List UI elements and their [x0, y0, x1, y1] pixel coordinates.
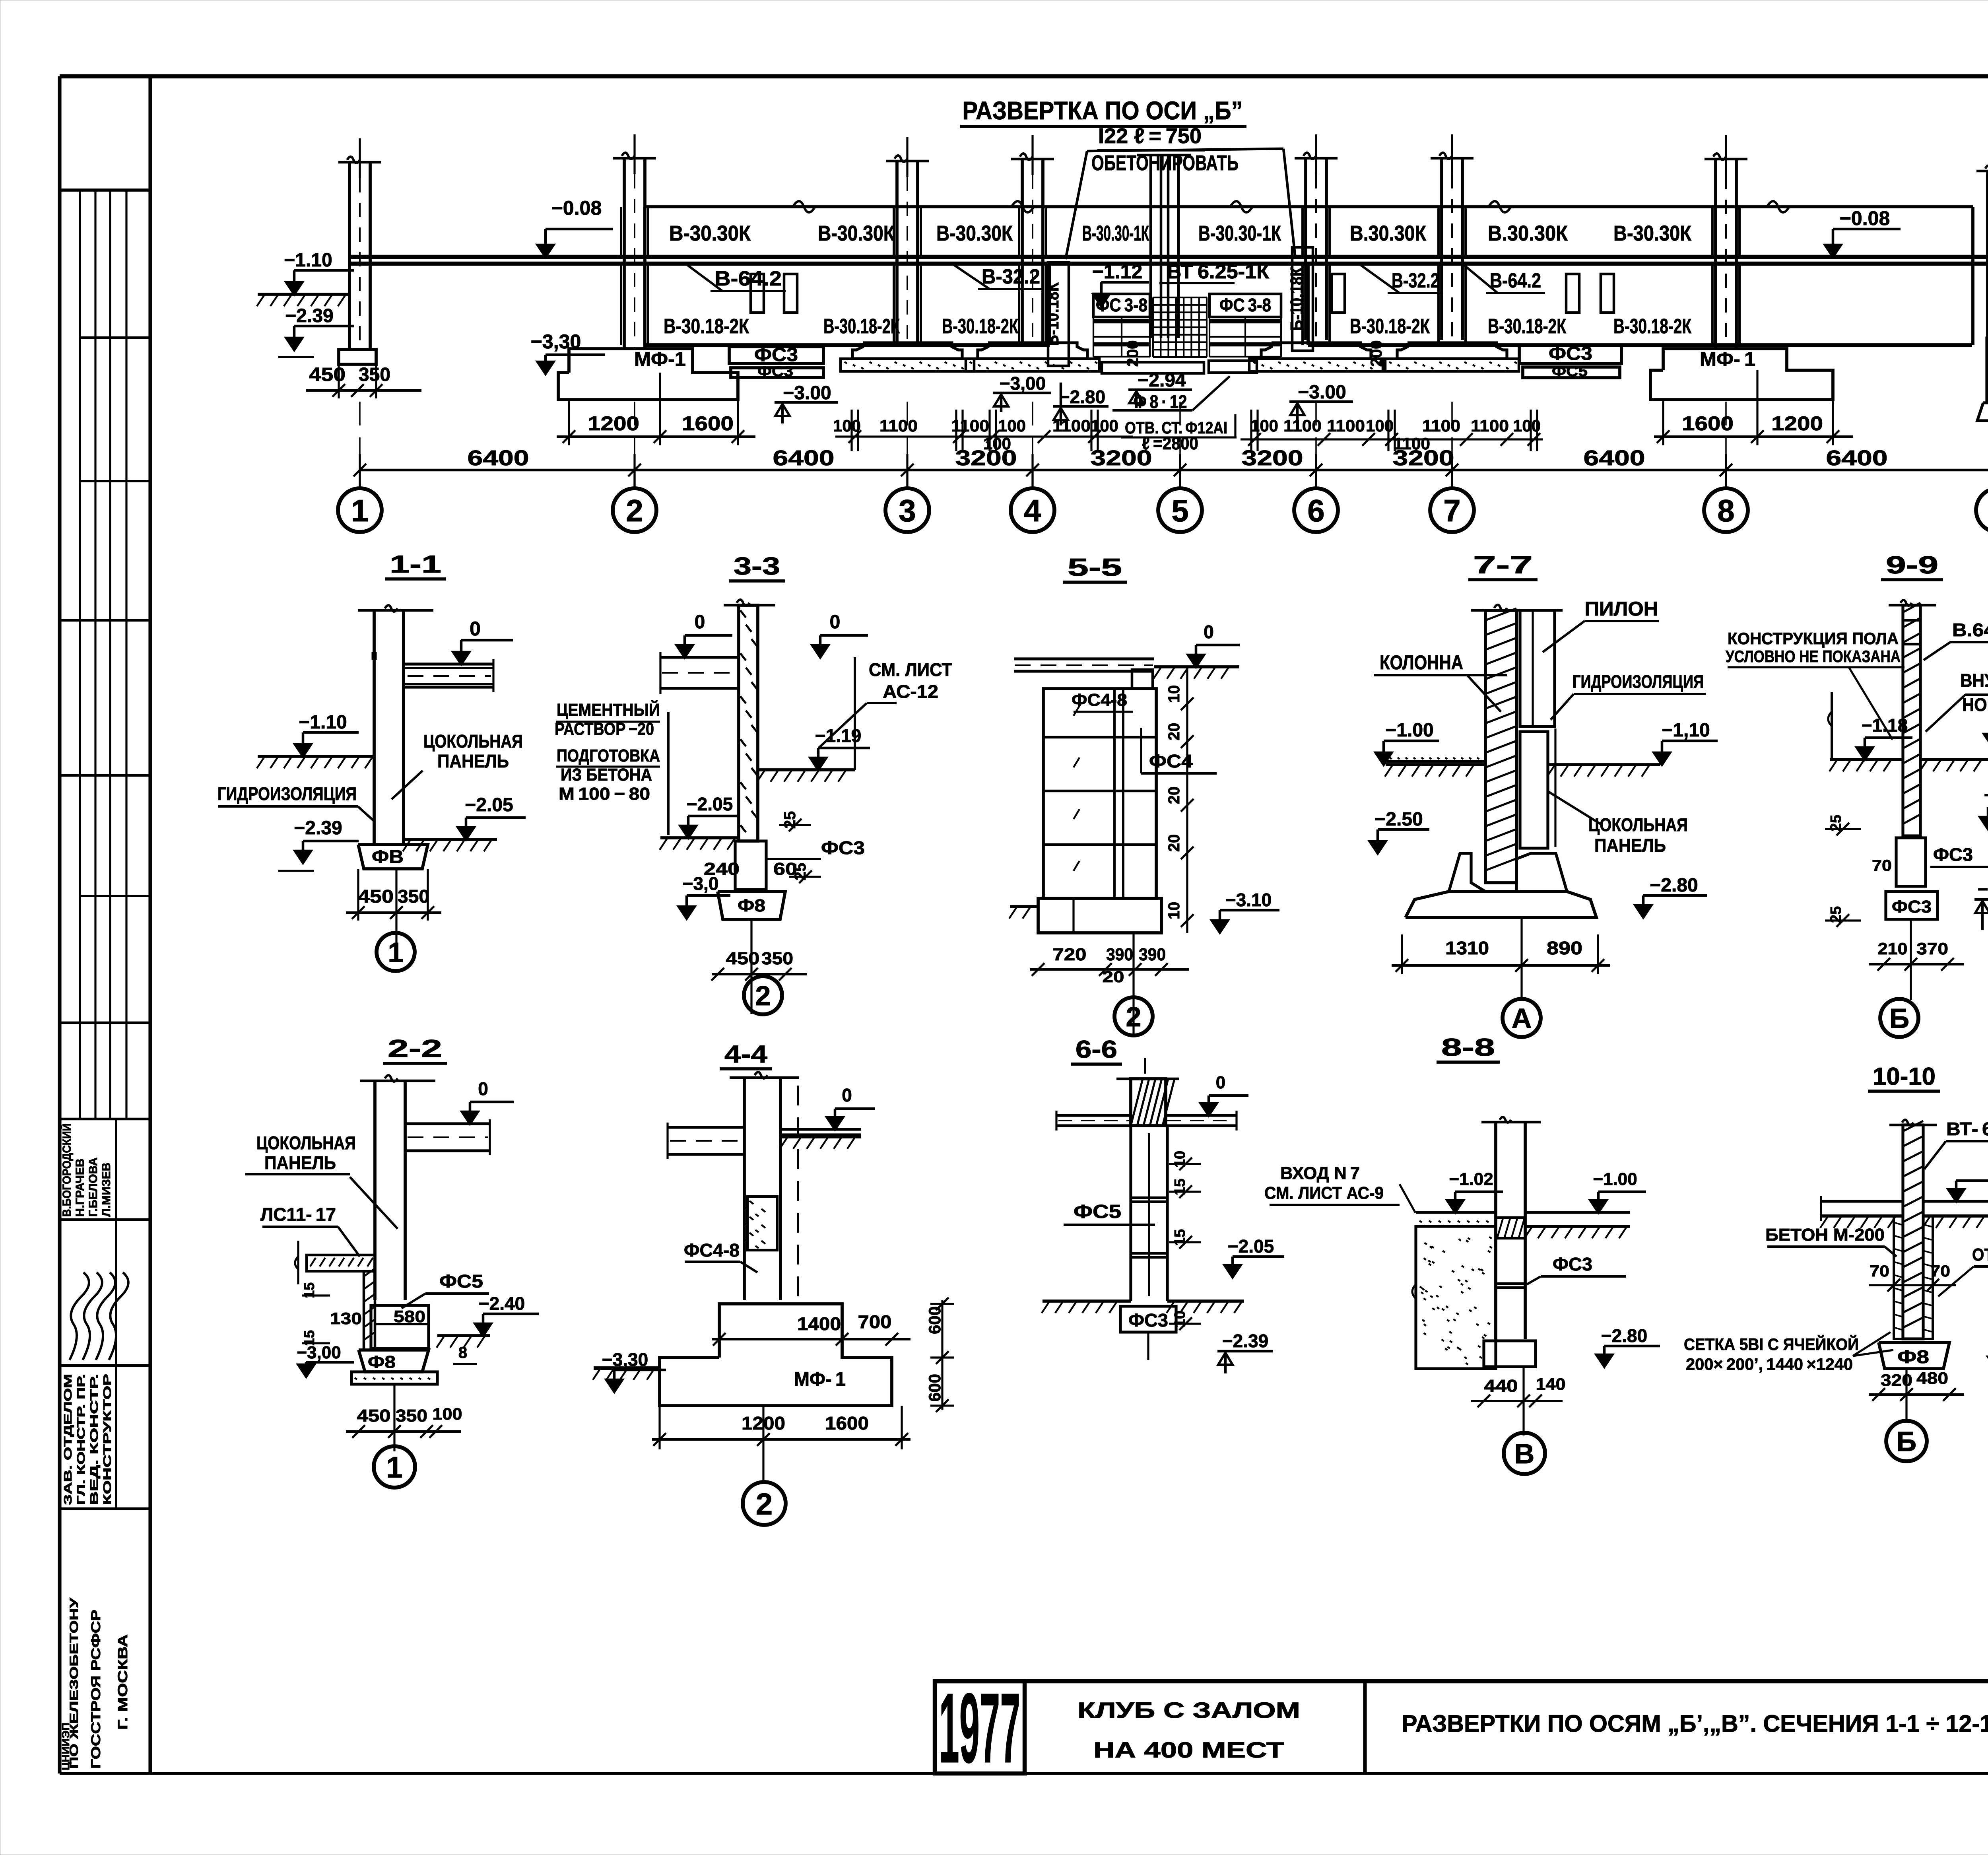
svg-text:ФС3: ФС3 [1549, 343, 1592, 364]
svg-text:ФС5: ФС5 [439, 1271, 483, 1292]
svg-text:ФВ: ФВ [372, 846, 404, 867]
svg-text:ПАНЕЛЬ: ПАНЕЛЬ [264, 1152, 336, 1173]
svg-text:700: 700 [858, 1311, 892, 1332]
svg-text:Ф8: Ф8 [1897, 1346, 1929, 1367]
svg-text:−1.10: −1.10 [299, 712, 347, 733]
svg-text:3-3: 3-3 [734, 553, 780, 580]
svg-text:В.30.30К: В.30.30К [1350, 221, 1427, 245]
svg-text:1100: 1100 [1327, 416, 1365, 435]
svg-text:3: 3 [899, 493, 916, 528]
svg-text:СМ. ЛИСТ: СМ. ЛИСТ [869, 659, 952, 680]
svg-text:−1.18: −1.18 [1862, 715, 1908, 736]
svg-text:450: 450 [726, 949, 760, 968]
svg-text:МФ-1: МФ-1 [634, 348, 686, 370]
svg-text:НА 400 МЕСТ: НА 400 МЕСТ [1093, 1737, 1284, 1762]
svg-text:КЛУБ С ЗАЛОМ: КЛУБ С ЗАЛОМ [1077, 1698, 1300, 1723]
svg-text:4: 4 [1024, 493, 1041, 528]
svg-text:100: 100 [998, 416, 1026, 435]
svg-text:−3.00: −3.00 [1298, 382, 1346, 403]
svg-text:НОВАЯ ПАНЕЛЬ: НОВАЯ ПАНЕЛЬ [1962, 694, 1988, 715]
svg-text:−3,0: −3,0 [683, 873, 719, 894]
svg-text:450: 450 [358, 886, 394, 907]
svg-text:10: 10 [1165, 685, 1183, 703]
svg-text:МФ- 1: МФ- 1 [1700, 348, 1755, 370]
svg-text:−0.08: −0.08 [1840, 207, 1890, 229]
svg-text:−2.07: −2.07 [1984, 785, 1988, 805]
svg-text:−2.50: −2.50 [1375, 809, 1423, 830]
svg-text:ГОССТРОЯ РСФСР: ГОССТРОЯ РСФСР [89, 1610, 103, 1769]
svg-text:6: 6 [1307, 493, 1324, 528]
svg-text:−2.39: −2.39 [294, 818, 342, 839]
svg-text:А: А [1512, 1003, 1532, 1034]
svg-text:390: 390 [1106, 945, 1133, 964]
svg-text:6400: 6400 [1826, 446, 1888, 470]
svg-text:В-30.30К: В-30.30К [669, 221, 751, 245]
svg-text:В-30.30К: В-30.30К [936, 221, 1013, 245]
svg-text:В-30.18-2К: В-30.18-2К [942, 315, 1018, 338]
svg-text:−1.19: −1.19 [815, 725, 861, 746]
svg-text:600: 600 [925, 1374, 944, 1402]
svg-text:70: 70 [1930, 1263, 1950, 1280]
svg-text:580: 580 [394, 1307, 425, 1326]
svg-text:0: 0 [830, 612, 841, 633]
svg-text:20: 20 [1103, 968, 1124, 986]
svg-text:320: 320 [1881, 1371, 1912, 1389]
svg-text:ФС5: ФС5 [1552, 363, 1588, 379]
svg-text:2: 2 [626, 493, 643, 528]
svg-text:1400: 1400 [797, 1313, 841, 1334]
svg-text:350: 350 [359, 364, 390, 385]
svg-text:В-30.18-2К: В-30.18-2К [664, 315, 749, 338]
svg-text:В-30.30К: В-30.30К [818, 221, 895, 245]
svg-text:100: 100 [833, 416, 861, 435]
svg-text:ЦНИИЭП: ЦНИИЭП [60, 1723, 72, 1770]
svg-text:0: 0 [1204, 622, 1214, 642]
svg-text:70: 70 [1872, 857, 1892, 874]
svg-text:5: 5 [1171, 493, 1188, 528]
svg-text:−0.08: −0.08 [551, 197, 602, 219]
svg-text:3200: 3200 [1242, 446, 1303, 470]
svg-text:3200: 3200 [1091, 446, 1152, 470]
svg-text:600: 600 [925, 1306, 944, 1334]
svg-text:70: 70 [1870, 1263, 1889, 1280]
svg-text:Н.ГРАЧЕВ: Н.ГРАЧЕВ [74, 1158, 87, 1217]
svg-text:СЕТКА 5ВІ С ЯЧЕЙКОЙ: СЕТКА 5ВІ С ЯЧЕЙКОЙ [1684, 1334, 1859, 1354]
svg-text:−1.10: −1.10 [284, 250, 332, 271]
svg-text:450: 450 [309, 364, 346, 385]
svg-text:2: 2 [755, 980, 771, 1011]
svg-text:УСЛОВНО НЕ ПОКАЗАНА: УСЛОВНО НЕ ПОКАЗАНА [1726, 647, 1901, 666]
svg-text:100: 100 [433, 1404, 462, 1423]
svg-text:ФС3: ФС3 [1128, 1310, 1168, 1331]
svg-text:8: 8 [1717, 493, 1734, 528]
svg-text:1: 1 [386, 1451, 402, 1484]
svg-text:1100: 1100 [879, 416, 918, 435]
svg-text:В-64.2: В-64.2 [714, 267, 782, 290]
svg-text:2-2: 2-2 [388, 1035, 442, 1062]
svg-text:ФС3: ФС3 [1933, 844, 1973, 865]
svg-text:20: 20 [1165, 834, 1183, 852]
svg-text:1: 1 [388, 937, 404, 968]
svg-text:СМ. ЛИСТ АС-9: СМ. ЛИСТ АС-9 [1264, 1183, 1384, 1203]
svg-text:−2.39: −2.39 [285, 305, 333, 326]
svg-text:2: 2 [1126, 1001, 1142, 1032]
svg-text:8-8: 8-8 [1441, 1034, 1495, 1061]
svg-text:ОТВ. СТ. Ф 12АІ: ОТВ. СТ. Ф 12АІ [1972, 1245, 1988, 1265]
svg-text:210: 210 [1878, 939, 1908, 958]
svg-text:БЕТОН М-200: БЕТОН М-200 [1765, 1225, 1885, 1245]
svg-text:РАЗВЕРТКИ ПО ОСЯМ „Б’,„В”. СЕЧ: РАЗВЕРТКИ ПО ОСЯМ „Б’,„В”. СЕЧЕНИЯ 1-1 ÷… [1402, 1710, 1988, 1737]
svg-text:РАЗВЕРТКА ПО ОСИ „Б”: РАЗВЕРТКА ПО ОСИ „Б” [963, 96, 1243, 125]
svg-text:−2.05: −2.05 [1228, 1236, 1274, 1257]
svg-text:4-4: 4-4 [724, 1041, 768, 1068]
svg-text:Г.БЕЛОВА: Г.БЕЛОВА [87, 1158, 100, 1217]
svg-text:ФС 3-8: ФС 3-8 [1219, 295, 1271, 315]
svg-text:1-1: 1-1 [390, 551, 441, 578]
svg-text:1100: 1100 [1422, 416, 1460, 435]
svg-text:ВХОД N 7: ВХОД N 7 [1280, 1164, 1360, 1183]
svg-text:−3.10: −3.10 [1225, 890, 1272, 910]
svg-text:−2.80: −2.80 [1059, 387, 1105, 407]
svg-text:1100: 1100 [1052, 416, 1091, 435]
svg-text:−3,30: −3,30 [531, 330, 581, 353]
svg-text:8: 8 [458, 1344, 467, 1362]
svg-text:В-64.2: В-64.2 [1490, 269, 1541, 292]
svg-text:−1.02: −1.02 [1449, 1169, 1493, 1189]
svg-text:3200: 3200 [1393, 446, 1454, 470]
svg-text:ФС3: ФС3 [757, 363, 793, 379]
svg-text:ВТ: ВТ [1167, 260, 1197, 283]
svg-text:6-6: 6-6 [1076, 1036, 1117, 1063]
svg-text:480: 480 [1916, 1369, 1948, 1387]
svg-text:20: 20 [1165, 787, 1183, 804]
svg-text:ВНУТРЕННЯЯ СТЕ-: ВНУТРЕННЯЯ СТЕ- [1960, 670, 1988, 691]
svg-text:ПАНЕЛЬ: ПАНЕЛЬ [1594, 835, 1666, 856]
svg-text:МФ- 1: МФ- 1 [794, 1368, 846, 1390]
svg-text:ФС3: ФС3 [821, 837, 865, 858]
svg-text:ГЛ. КОНСТР. ПР.: ГЛ. КОНСТР. ПР. [75, 1374, 87, 1505]
svg-text:ФС5: ФС5 [1074, 1201, 1121, 1222]
svg-text:В-30.30-1К: В-30.30-1К [1198, 221, 1281, 245]
svg-text:140: 140 [1536, 1375, 1566, 1393]
svg-text:350: 350 [398, 886, 429, 907]
svg-text:200× 200’, 1440 ×1240: 200× 200’, 1440 ×1240 [1686, 1355, 1853, 1373]
svg-text:Л.МИЗЕВ: Л.МИЗЕВ [100, 1163, 113, 1217]
svg-text:В-30.18-2К: В-30.18-2К [823, 315, 900, 338]
svg-text:350: 350 [761, 949, 793, 968]
svg-text:ЗАВ. ОТДЕЛОМ: ЗАВ. ОТДЕЛОМ [62, 1374, 74, 1505]
svg-text:5-5: 5-5 [1068, 554, 1122, 581]
svg-text:0: 0 [695, 612, 705, 633]
svg-text:1310: 1310 [1445, 938, 1489, 958]
svg-text:ФС3: ФС3 [1553, 1254, 1592, 1274]
svg-text:200: 200 [1368, 340, 1385, 367]
svg-text:20: 20 [1165, 723, 1183, 741]
svg-text:В-32.2: В-32.2 [982, 265, 1040, 288]
svg-text:890: 890 [1547, 938, 1582, 958]
svg-text:ФС4: ФС4 [1149, 751, 1193, 771]
svg-text:1100: 1100 [1471, 416, 1509, 435]
svg-text:1: 1 [351, 493, 368, 528]
svg-text:−2.39: −2.39 [1222, 1331, 1268, 1351]
svg-text:350: 350 [396, 1406, 427, 1426]
svg-text:2: 2 [756, 1487, 773, 1521]
svg-text:ЦЕМЕНТНЫЙ: ЦЕМЕНТНЫЙ [557, 699, 660, 720]
svg-text:−3.00: −3.00 [1978, 879, 1988, 899]
svg-text:3200: 3200 [955, 446, 1017, 470]
svg-text:В-30.18-2К: В-30.18-2К [1613, 315, 1691, 338]
svg-text:−2.40: −2.40 [479, 1293, 525, 1314]
svg-text:ОБЕТОНИРОВАТЬ: ОБЕТОНИРОВАТЬ [1091, 151, 1239, 175]
svg-text:390: 390 [1139, 945, 1166, 964]
svg-text:ЛС11- 17: ЛС11- 17 [260, 1204, 336, 1225]
svg-text:В-30.30-1К: В-30.30-1К [1082, 221, 1149, 245]
svg-text:6400: 6400 [1584, 446, 1645, 470]
svg-text:10-10: 10-10 [1873, 1063, 1936, 1090]
svg-text:7: 7 [1443, 493, 1460, 528]
svg-text:1600: 1600 [682, 412, 734, 435]
svg-text:0: 0 [478, 1078, 488, 1099]
svg-text:1977: 1977 [939, 1672, 1021, 1783]
svg-text:−2.80: −2.80 [1601, 1325, 1647, 1346]
svg-text:100: 100 [1250, 416, 1278, 435]
svg-text:ГИДРОИЗОЛЯЦИЯ: ГИДРОИЗОЛЯЦИЯ [217, 783, 357, 804]
svg-text:М 100 − 80: М 100 − 80 [559, 784, 650, 804]
svg-text:−3,00: −3,00 [1000, 373, 1046, 394]
svg-text:КОНСТРУКТОР: КОНСТРУКТОР [101, 1374, 113, 1505]
svg-text:9-9: 9-9 [1886, 552, 1938, 579]
svg-text:200: 200 [1124, 340, 1142, 367]
svg-text:В.30.30К: В.30.30К [1488, 221, 1568, 245]
svg-text:−1.12: −1.12 [1092, 260, 1143, 283]
svg-text:В.БОГОРОДСКИЙ: В.БОГОРОДСКИЙ [60, 1123, 74, 1217]
svg-text:В: В [1514, 1438, 1535, 1469]
svg-text:−1.00: −1.00 [1385, 720, 1433, 741]
svg-text:ЦОКОЛЬНАЯ: ЦОКОЛЬНАЯ [423, 731, 523, 752]
svg-text:−2.05: −2.05 [465, 794, 513, 816]
svg-text:ЦОКОЛЬНАЯ: ЦОКОЛЬНАЯ [1588, 814, 1688, 835]
svg-text:Ф8: Ф8 [738, 896, 765, 915]
svg-text:440: 440 [1484, 1376, 1518, 1396]
svg-text:В-32.2: В-32.2 [1392, 269, 1439, 292]
svg-text:В-30.18-2К: В-30.18-2К [1350, 315, 1430, 338]
svg-text:ВТ- 6.25-1К: ВТ- 6.25-1К [1946, 1119, 1988, 1139]
svg-text:−2.05: −2.05 [687, 794, 733, 814]
svg-text:6.25-1К: 6.25-1К [1198, 260, 1269, 283]
svg-text:6400: 6400 [468, 446, 529, 470]
svg-text:КОЛОННА: КОЛОННА [1380, 651, 1463, 674]
svg-text:720: 720 [1053, 945, 1087, 964]
svg-text:6400: 6400 [773, 446, 835, 470]
svg-text:7-7: 7-7 [1473, 552, 1533, 579]
svg-text:Ф 8 · 12: Ф 8 · 12 [1134, 391, 1187, 412]
svg-text:370: 370 [1916, 939, 1948, 958]
svg-text:Г. МОСКВА: Г. МОСКВА [115, 1634, 130, 1730]
svg-text:Б: Б [1889, 1003, 1909, 1034]
svg-text:АС-12: АС-12 [883, 681, 938, 702]
svg-text:ПАНЕЛЬ: ПАНЕЛЬ [437, 751, 509, 771]
svg-text:1200: 1200 [588, 412, 639, 435]
svg-text:ПИЛОН: ПИЛОН [1585, 598, 1658, 620]
svg-text:0: 0 [842, 1085, 852, 1105]
svg-text:1600: 1600 [825, 1413, 869, 1433]
svg-text:ГИДРОИЗОЛЯЦИЯ: ГИДРОИЗОЛЯЦИЯ [1573, 671, 1704, 692]
svg-text:−2.80: −2.80 [1650, 875, 1698, 896]
svg-text:1200: 1200 [1771, 412, 1823, 435]
svg-text:−1,10: −1,10 [1662, 720, 1710, 741]
svg-text:ФС4-8: ФС4-8 [684, 1240, 740, 1261]
svg-text:В.64.2: В.64.2 [1952, 620, 1988, 640]
svg-text:10: 10 [1165, 902, 1183, 920]
svg-text:−2.94: −2.94 [1138, 370, 1186, 391]
svg-text:В-30.30К: В-30.30К [1613, 221, 1692, 245]
svg-text:−3,00: −3,00 [297, 1343, 341, 1362]
svg-text:100: 100 [1091, 416, 1118, 435]
svg-text:ВЕД. КОНСТР.: ВЕД. КОНСТР. [88, 1374, 100, 1505]
svg-text:ФС4-8: ФС4-8 [1072, 690, 1127, 710]
svg-text:130: 130 [330, 1309, 362, 1328]
svg-text:ПОДГОТОВКА: ПОДГОТОВКА [557, 746, 660, 765]
svg-text:Б: Б [1897, 1426, 1916, 1457]
svg-text:−3.00: −3.00 [783, 383, 831, 404]
svg-text:ИЗ БЕТОНА: ИЗ БЕТОНА [561, 765, 652, 785]
svg-text:450: 450 [357, 1406, 391, 1426]
svg-text:ЦОКОЛЬНАЯ: ЦОКОЛЬНАЯ [256, 1132, 356, 1153]
svg-text:−1.00: −1.00 [1593, 1169, 1637, 1189]
svg-text:КОНСТРУКЦИЯ ПОЛА: КОНСТРУКЦИЯ ПОЛА [1728, 629, 1899, 648]
svg-text:0: 0 [470, 618, 481, 640]
svg-text:І22 ℓ = 750: І22 ℓ = 750 [1098, 124, 1202, 148]
svg-text:Ф8: Ф8 [368, 1352, 396, 1372]
svg-text:0: 0 [1216, 1073, 1225, 1092]
svg-text:ФС3: ФС3 [754, 344, 798, 365]
svg-text:ФС3: ФС3 [1892, 897, 1932, 917]
svg-text:В-30.18-2К: В-30.18-2К [1488, 315, 1566, 338]
